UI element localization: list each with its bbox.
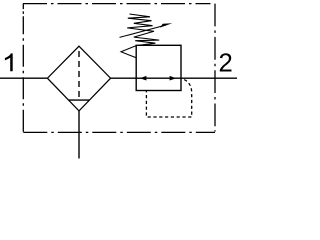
filter F1 diamond	[47, 46, 110, 111]
drain line	[78, 111, 80, 159]
wire port 1 to filter	[0, 77, 47, 79]
right arrowhead	[170, 76, 177, 81]
pilot feedback line (dashed)	[146, 79, 191, 118]
spring (adjustable) coils	[121, 14, 159, 58]
left arrowhead	[140, 76, 147, 81]
svg-text:2: 2	[219, 49, 233, 77]
enclosure top border	[23, 3, 211, 5]
wire filter to regulator to port 2	[111, 77, 237, 79]
water separator chord	[69, 99, 90, 101]
filter element dashed line	[78, 51, 80, 100]
enclosure bottom border	[23, 131, 215, 133]
adjustment arrowhead	[160, 23, 172, 27]
regulator R1 body	[136, 45, 181, 90]
adjustment arrow shaft	[120, 25, 167, 37]
enclosure left border	[22, 4, 24, 133]
enclosure right border	[214, 4, 216, 132]
port 1 label	[5, 53, 13, 71]
